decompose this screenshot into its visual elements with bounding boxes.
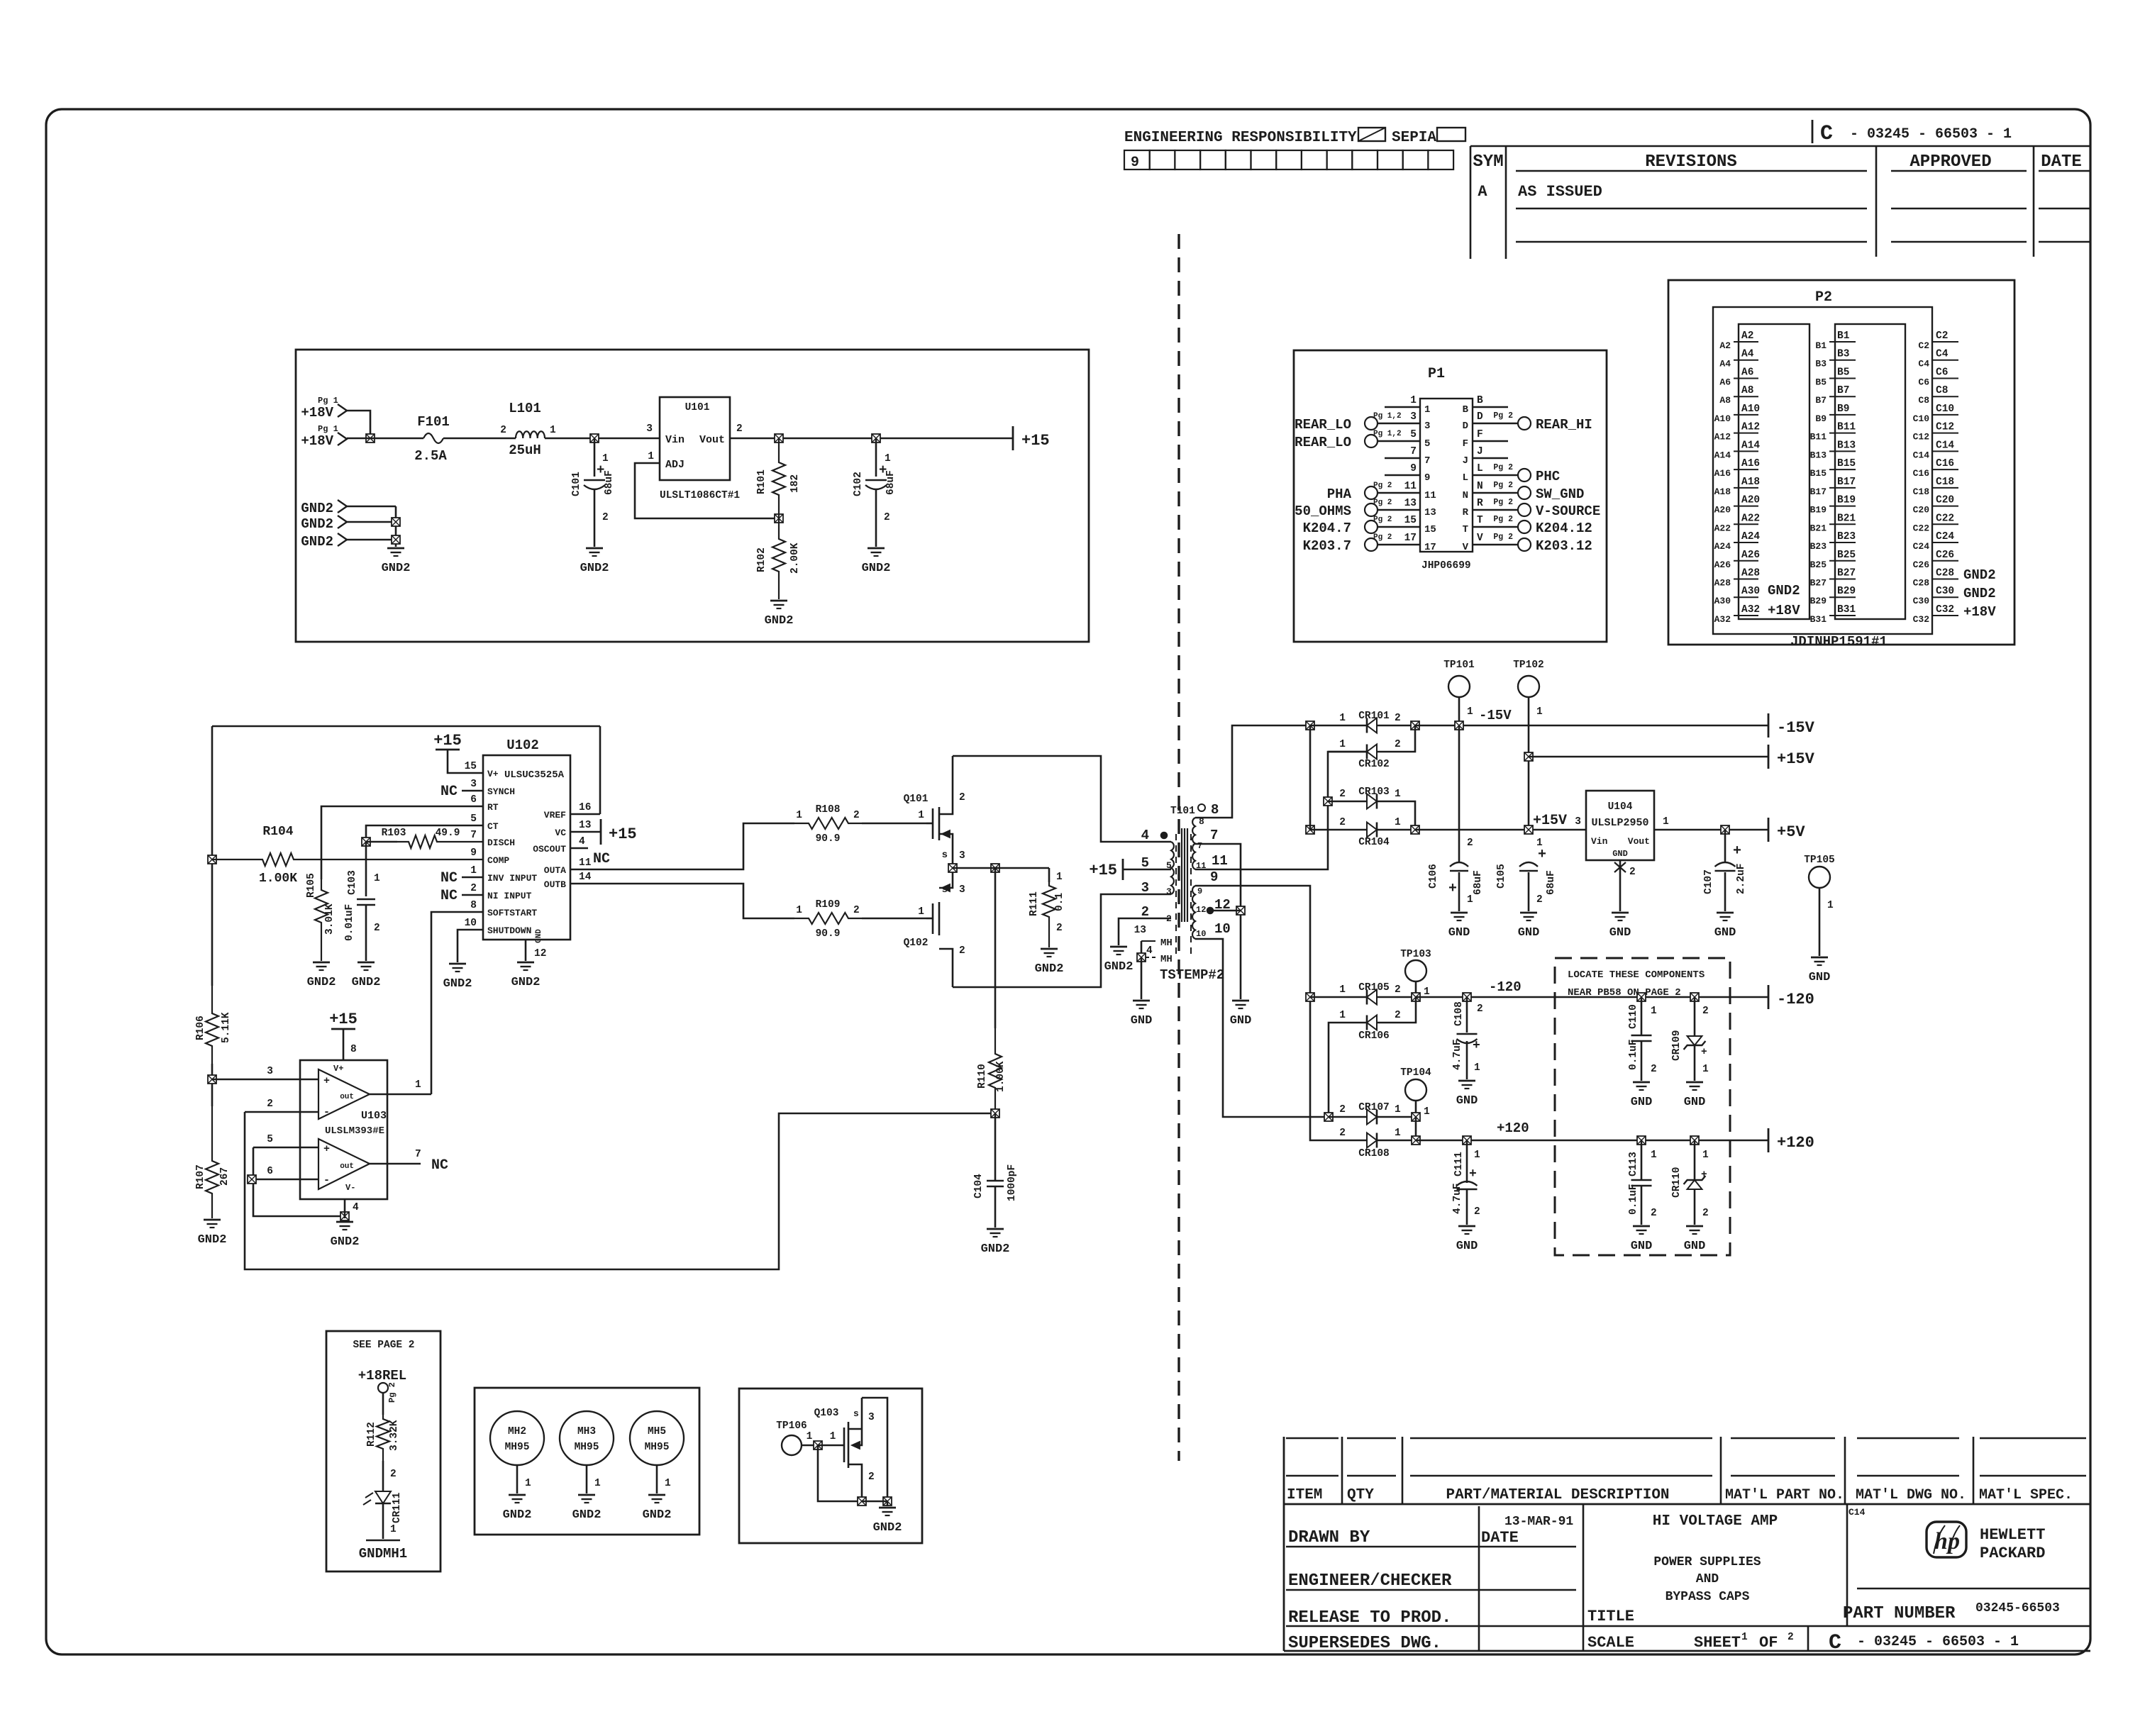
svg-text:A10: A10 xyxy=(1741,404,1760,415)
svg-text:RELEASE TO PROD.: RELEASE TO PROD. xyxy=(1288,1608,1451,1627)
svg-text:A26: A26 xyxy=(1741,550,1760,561)
svg-text:F101: F101 xyxy=(417,414,450,430)
svg-text:9: 9 xyxy=(1210,869,1218,885)
svg-text:B17: B17 xyxy=(1810,486,1827,497)
svg-text:13: 13 xyxy=(1134,925,1146,936)
svg-text:RT: RT xyxy=(487,802,499,813)
svg-text:9: 9 xyxy=(1410,463,1417,474)
svg-text:1: 1 xyxy=(1424,1106,1430,1118)
svg-text:C8: C8 xyxy=(1918,395,1929,406)
svg-text:TP105: TP105 xyxy=(1804,855,1835,866)
svg-text:GND: GND xyxy=(1612,849,1628,859)
svg-text:5: 5 xyxy=(470,813,477,825)
svg-text:1: 1 xyxy=(1395,817,1401,828)
svg-text:Vout: Vout xyxy=(1628,836,1650,847)
svg-text:ULSLM393#E: ULSLM393#E xyxy=(325,1125,384,1137)
svg-text:5.11K: 5.11K xyxy=(221,1012,232,1043)
svg-text:A28: A28 xyxy=(1714,577,1731,588)
svg-text:B15: B15 xyxy=(1810,468,1827,479)
svg-text:2: 2 xyxy=(267,1098,273,1110)
svg-text:DATE: DATE xyxy=(1481,1529,1519,1547)
svg-text:DRAWN BY: DRAWN BY xyxy=(1288,1528,1370,1547)
svg-text:SCALE: SCALE xyxy=(1587,1634,1634,1652)
svg-text:2: 2 xyxy=(1702,1208,1709,1219)
svg-text:A4: A4 xyxy=(1741,349,1754,360)
svg-text:SW_GND: SW_GND xyxy=(1536,486,1584,502)
svg-text:C30: C30 xyxy=(1936,586,1954,597)
svg-text:0.1: 0.1 xyxy=(1054,893,1065,911)
svg-text:V+: V+ xyxy=(487,769,499,779)
svg-text:2: 2 xyxy=(1339,789,1346,800)
svg-text:1: 1 xyxy=(1702,1064,1709,1075)
svg-text:TSTEMP#2: TSTEMP#2 xyxy=(1160,967,1224,983)
svg-text:-120: -120 xyxy=(1777,991,1814,1008)
svg-text:POWER SUPPLIES: POWER SUPPLIES xyxy=(1653,1555,1761,1569)
svg-text:U103: U103 xyxy=(361,1110,387,1122)
svg-text:C107: C107 xyxy=(1703,869,1714,894)
svg-text:Pg 1,2: Pg 1,2 xyxy=(1373,430,1402,438)
svg-text:ULSLT1086CT#1: ULSLT1086CT#1 xyxy=(660,490,740,501)
svg-text:B13: B13 xyxy=(1837,440,1856,451)
svg-text:Pg 1: Pg 1 xyxy=(318,424,338,434)
svg-text:2: 2 xyxy=(390,1469,397,1480)
svg-text:2: 2 xyxy=(1477,1003,1483,1015)
svg-text:GND2: GND2 xyxy=(307,976,336,989)
svg-text:OUTA: OUTA xyxy=(544,865,566,876)
svg-text:A18: A18 xyxy=(1741,477,1760,488)
svg-text:17: 17 xyxy=(1404,533,1417,544)
svg-text:2: 2 xyxy=(1141,904,1149,920)
svg-text:1: 1 xyxy=(1395,789,1401,800)
svg-text:CT: CT xyxy=(487,821,499,832)
svg-text:1: 1 xyxy=(796,905,802,916)
svg-text:MH: MH xyxy=(1160,954,1173,965)
svg-text:2.2uF: 2.2uF xyxy=(1736,863,1747,894)
svg-text:1: 1 xyxy=(807,1431,813,1442)
svg-text:A32: A32 xyxy=(1741,604,1760,616)
svg-text:6: 6 xyxy=(470,794,477,806)
svg-text:A14: A14 xyxy=(1741,440,1760,451)
svg-text:2: 2 xyxy=(374,923,380,934)
svg-text:+: + xyxy=(1448,881,1457,897)
svg-text:C: C xyxy=(1820,122,1833,146)
svg-text:L: L xyxy=(1463,472,1468,484)
svg-text:B31: B31 xyxy=(1810,614,1827,625)
svg-text:C10: C10 xyxy=(1913,413,1930,424)
svg-text:2: 2 xyxy=(853,905,860,916)
svg-text:A22: A22 xyxy=(1741,513,1760,524)
svg-text:C113: C113 xyxy=(1628,1152,1639,1176)
svg-text:+15: +15 xyxy=(1021,432,1050,450)
svg-text:B31: B31 xyxy=(1837,604,1856,616)
svg-text:TP103: TP103 xyxy=(1400,949,1431,960)
svg-text:C6: C6 xyxy=(1936,367,1948,378)
svg-text:A32: A32 xyxy=(1714,614,1731,625)
svg-text:C16: C16 xyxy=(1936,458,1954,469)
svg-text:C6: C6 xyxy=(1918,377,1929,387)
svg-text:2: 2 xyxy=(1467,838,1473,849)
svg-text:CR105: CR105 xyxy=(1358,982,1390,994)
svg-text:B9: B9 xyxy=(1815,413,1827,424)
svg-text:Pg 1,2: Pg 1,2 xyxy=(1373,412,1402,421)
svg-text:NC: NC xyxy=(440,870,458,886)
svg-text:1: 1 xyxy=(1467,894,1473,906)
svg-text:C10: C10 xyxy=(1936,404,1954,415)
svg-text:A18: A18 xyxy=(1714,486,1731,497)
svg-text:C26: C26 xyxy=(1913,560,1930,570)
svg-text:10: 10 xyxy=(1196,929,1206,939)
svg-text:A8: A8 xyxy=(1741,385,1753,396)
svg-text:Pg 2: Pg 2 xyxy=(387,1382,397,1403)
svg-text:B9: B9 xyxy=(1837,404,1849,415)
svg-text:C16: C16 xyxy=(1913,468,1930,479)
svg-text:GND2: GND2 xyxy=(765,614,794,628)
svg-text:NEAR PB58 ON PAGE 2: NEAR PB58 ON PAGE 2 xyxy=(1568,987,1681,998)
svg-text:SEPIA: SEPIA xyxy=(1392,130,1436,146)
svg-text:1.00K: 1.00K xyxy=(995,1061,1007,1092)
svg-text:2: 2 xyxy=(1395,984,1401,996)
svg-text:2: 2 xyxy=(1651,1064,1657,1075)
svg-text:A28: A28 xyxy=(1741,567,1760,579)
svg-text:B5: B5 xyxy=(1815,377,1827,387)
svg-text:K204.12: K204.12 xyxy=(1536,521,1592,536)
svg-text:4: 4 xyxy=(353,1202,359,1213)
svg-text:s: s xyxy=(942,850,948,861)
svg-text:+18V: +18V xyxy=(301,433,333,449)
svg-text:1: 1 xyxy=(1339,984,1346,996)
svg-text:3: 3 xyxy=(646,423,653,435)
svg-text:5: 5 xyxy=(1424,438,1430,450)
svg-text:MH95: MH95 xyxy=(575,1442,599,1453)
svg-text:2: 2 xyxy=(1395,713,1401,724)
svg-text:GND: GND xyxy=(1230,1014,1252,1028)
svg-text:B3: B3 xyxy=(1815,359,1827,369)
svg-text:7: 7 xyxy=(470,830,477,841)
svg-text:CR104: CR104 xyxy=(1358,837,1390,848)
svg-text:2: 2 xyxy=(1166,913,1172,924)
svg-text:+18V: +18V xyxy=(301,405,333,421)
svg-text:B25: B25 xyxy=(1837,550,1856,561)
svg-text:2: 2 xyxy=(470,883,477,894)
svg-text:DISCH: DISCH xyxy=(487,838,515,848)
svg-text:A2: A2 xyxy=(1719,340,1731,351)
svg-text:C8: C8 xyxy=(1936,385,1948,396)
svg-text:+18REL: +18REL xyxy=(358,1368,406,1384)
svg-text:PART NUMBER: PART NUMBER xyxy=(1843,1604,1956,1623)
svg-text:K203.12: K203.12 xyxy=(1536,538,1592,554)
svg-text:2: 2 xyxy=(1651,1208,1657,1219)
svg-text:B19: B19 xyxy=(1810,505,1827,516)
svg-text:NC: NC xyxy=(440,888,458,904)
svg-text:V: V xyxy=(1477,533,1483,544)
svg-text:68uF: 68uF xyxy=(1473,870,1484,895)
svg-text:Pg 2: Pg 2 xyxy=(1493,515,1513,524)
svg-text:OSCOUT: OSCOUT xyxy=(533,844,566,855)
svg-text:MH95: MH95 xyxy=(505,1442,530,1453)
svg-text:2: 2 xyxy=(1056,923,1063,934)
svg-text:A22: A22 xyxy=(1714,523,1731,533)
svg-text:GND2: GND2 xyxy=(862,562,891,575)
svg-text:GND: GND xyxy=(1684,1096,1706,1109)
svg-text:2: 2 xyxy=(1629,867,1636,878)
svg-text:HEWLETT: HEWLETT xyxy=(1980,1526,2045,1544)
svg-text:LOCATE THESE COMPONENTS: LOCATE THESE COMPONENTS xyxy=(1568,969,1705,981)
svg-text:GND: GND xyxy=(1518,926,1540,940)
svg-text:A12: A12 xyxy=(1741,422,1760,433)
svg-text:2: 2 xyxy=(1787,1632,1794,1643)
svg-text:R109: R109 xyxy=(816,899,841,911)
svg-text:CR107: CR107 xyxy=(1358,1102,1390,1113)
svg-text:4.7uF: 4.7uF xyxy=(1452,1039,1463,1070)
svg-text:+: + xyxy=(323,1075,330,1087)
svg-text:+120: +120 xyxy=(1777,1134,1814,1152)
svg-text:2: 2 xyxy=(959,792,965,803)
svg-text:CR101: CR101 xyxy=(1358,711,1390,722)
svg-text:49.9: 49.9 xyxy=(436,828,460,839)
svg-text:8: 8 xyxy=(1211,802,1219,818)
svg-text:R112: R112 xyxy=(366,1422,377,1447)
svg-text:2: 2 xyxy=(884,512,890,523)
svg-text:C106: C106 xyxy=(1428,864,1439,889)
svg-text:B29: B29 xyxy=(1810,596,1827,606)
svg-text:GND2: GND2 xyxy=(981,1242,1010,1256)
svg-text:SUPERSEDES DWG.: SUPERSEDES DWG. xyxy=(1288,1634,1441,1653)
svg-text:- 03245 - 66503 - 1: - 03245 - 66503 - 1 xyxy=(1850,126,2012,143)
svg-text:MAT'L DWG NO.: MAT'L DWG NO. xyxy=(1856,1487,1966,1503)
svg-text:GND2: GND2 xyxy=(443,977,472,991)
svg-text:ENGINEERING RESPONSIBILITY: ENGINEERING RESPONSIBILITY xyxy=(1124,130,1357,146)
svg-text:GND2: GND2 xyxy=(503,1508,532,1522)
svg-text:Pg 2: Pg 2 xyxy=(1493,411,1513,421)
svg-text:C101: C101 xyxy=(571,472,582,496)
svg-text:-15V: -15V xyxy=(1479,708,1512,723)
svg-text:R106: R106 xyxy=(195,1016,206,1040)
svg-text:AS ISSUED: AS ISSUED xyxy=(1518,183,1602,201)
svg-text:11: 11 xyxy=(1424,490,1436,501)
svg-text:GND: GND xyxy=(1456,1240,1478,1253)
svg-text:B3: B3 xyxy=(1837,349,1849,360)
svg-text:QTY: QTY xyxy=(1347,1487,1374,1503)
svg-text:Pg 2: Pg 2 xyxy=(1493,463,1513,472)
svg-text:3: 3 xyxy=(1166,886,1172,897)
svg-text:3: 3 xyxy=(959,884,965,896)
svg-text:9: 9 xyxy=(1424,472,1430,484)
svg-text:A12: A12 xyxy=(1714,432,1731,443)
svg-text:A16: A16 xyxy=(1741,458,1760,469)
svg-text:14: 14 xyxy=(579,872,592,883)
svg-text:SHUTDOWN: SHUTDOWN xyxy=(487,925,531,936)
svg-text:3: 3 xyxy=(1575,816,1581,828)
svg-text:A6: A6 xyxy=(1741,367,1753,378)
svg-text:1: 1 xyxy=(1395,1104,1401,1115)
svg-text:A20: A20 xyxy=(1714,505,1731,516)
svg-text:U102: U102 xyxy=(506,738,539,753)
svg-text:MH: MH xyxy=(1160,937,1173,949)
svg-text:TITLE: TITLE xyxy=(1587,1608,1634,1625)
svg-text:C20: C20 xyxy=(1936,495,1954,506)
svg-text:11: 11 xyxy=(1404,481,1417,492)
svg-text:R: R xyxy=(1463,507,1469,518)
svg-text:6: 6 xyxy=(267,1166,273,1177)
svg-text:B11: B11 xyxy=(1837,422,1856,433)
svg-text:7: 7 xyxy=(1210,828,1218,843)
svg-text:GND: GND xyxy=(1631,1240,1653,1253)
svg-text:B15: B15 xyxy=(1837,458,1856,469)
svg-text:s: s xyxy=(942,884,948,896)
svg-text:1: 1 xyxy=(1474,1062,1480,1074)
svg-text:NC: NC xyxy=(431,1157,448,1174)
svg-text:10: 10 xyxy=(1214,921,1231,937)
svg-text:10: 10 xyxy=(465,918,477,929)
svg-text:11: 11 xyxy=(579,857,592,869)
svg-text:2: 2 xyxy=(1339,817,1346,828)
svg-text:B: B xyxy=(1463,404,1469,416)
svg-text:0.1uF: 0.1uF xyxy=(1628,1184,1639,1215)
svg-text:C22: C22 xyxy=(1913,523,1930,533)
svg-text:APPROVED: APPROVED xyxy=(1910,152,1991,172)
svg-text:J: J xyxy=(1463,455,1468,467)
svg-text:+18V: +18V xyxy=(1768,603,1800,618)
svg-text:+15: +15 xyxy=(609,825,637,843)
svg-text:A16: A16 xyxy=(1714,468,1731,479)
svg-text:C14: C14 xyxy=(1936,440,1954,451)
svg-text:3: 3 xyxy=(1424,421,1430,432)
svg-text:B5: B5 xyxy=(1837,367,1849,378)
svg-text:R102: R102 xyxy=(756,547,767,572)
svg-text:12: 12 xyxy=(1196,905,1206,915)
svg-text:9: 9 xyxy=(470,847,477,859)
svg-text:1: 1 xyxy=(1467,706,1473,718)
svg-text:90.9: 90.9 xyxy=(816,833,841,845)
svg-text:GND2: GND2 xyxy=(580,562,609,575)
svg-text:2.00K: 2.00K xyxy=(789,542,801,574)
svg-text:B17: B17 xyxy=(1837,477,1856,488)
svg-text:+15V: +15V xyxy=(1777,750,1815,768)
svg-text:GND2: GND2 xyxy=(198,1233,227,1247)
svg-text:15: 15 xyxy=(1424,524,1436,535)
svg-text:1: 1 xyxy=(1395,1128,1401,1139)
svg-text:13: 13 xyxy=(579,820,591,831)
svg-text:MH95: MH95 xyxy=(645,1442,670,1453)
svg-text:R101: R101 xyxy=(756,469,767,494)
svg-text:11: 11 xyxy=(1212,853,1228,869)
svg-text:B: B xyxy=(1477,395,1483,406)
svg-text:GND: GND xyxy=(1448,926,1470,940)
svg-text:K204.7: K204.7 xyxy=(1303,521,1351,536)
svg-text:2: 2 xyxy=(853,810,860,821)
svg-text:1: 1 xyxy=(470,865,477,877)
svg-text:C: C xyxy=(1829,1631,1841,1655)
svg-text:GND: GND xyxy=(1714,926,1736,940)
svg-text:15: 15 xyxy=(465,761,477,772)
svg-text:B27: B27 xyxy=(1837,567,1856,579)
svg-text:B25: B25 xyxy=(1810,560,1827,570)
svg-text:A30: A30 xyxy=(1741,586,1760,597)
svg-text:2: 2 xyxy=(1474,1206,1480,1218)
svg-text:REAR_HI: REAR_HI xyxy=(1536,417,1592,433)
svg-text:-15V: -15V xyxy=(1777,719,1815,737)
svg-text:+18V: +18V xyxy=(1963,604,1996,620)
svg-text:F: F xyxy=(1463,438,1468,450)
svg-text:GND2: GND2 xyxy=(572,1508,602,1522)
svg-text:ENGINEER/CHECKER: ENGINEER/CHECKER xyxy=(1288,1571,1452,1591)
svg-text:1: 1 xyxy=(1741,1632,1748,1643)
svg-text:ADJ: ADJ xyxy=(665,459,684,471)
svg-text:+: + xyxy=(1701,1169,1707,1181)
svg-text:C102: C102 xyxy=(853,472,864,496)
svg-text:JHP06699: JHP06699 xyxy=(1421,560,1471,572)
svg-text:CR110: CR110 xyxy=(1671,1167,1683,1198)
svg-text:CR111: CR111 xyxy=(392,1492,403,1523)
svg-text:T101: T101 xyxy=(1170,806,1195,817)
svg-text:C28: C28 xyxy=(1936,567,1954,579)
svg-text:Pg 1: Pg 1 xyxy=(318,396,338,406)
svg-text:Q103: Q103 xyxy=(814,1408,839,1419)
svg-text:B23: B23 xyxy=(1837,531,1856,542)
svg-text:GND: GND xyxy=(1456,1094,1478,1108)
svg-text:GND2: GND2 xyxy=(301,534,333,550)
svg-text:REAR_LO: REAR_LO xyxy=(1295,417,1351,433)
svg-text:B13: B13 xyxy=(1810,450,1827,460)
svg-text:out: out xyxy=(340,1093,354,1101)
svg-text:TP102: TP102 xyxy=(1513,660,1544,671)
svg-text:DATE: DATE xyxy=(2041,152,2082,172)
svg-text:B21: B21 xyxy=(1810,523,1827,533)
svg-text:+: + xyxy=(1701,1047,1707,1058)
svg-text:MH5: MH5 xyxy=(648,1426,666,1437)
svg-text:1: 1 xyxy=(1474,1150,1480,1161)
svg-text:2: 2 xyxy=(1395,739,1401,750)
svg-text:A24: A24 xyxy=(1741,531,1760,542)
svg-text:SYM: SYM xyxy=(1473,152,1503,172)
svg-text:1: 1 xyxy=(830,1431,836,1442)
svg-text:GND2: GND2 xyxy=(1963,586,1996,601)
svg-text:B1: B1 xyxy=(1815,340,1827,351)
svg-text:PACKARD: PACKARD xyxy=(1980,1545,2045,1562)
svg-text:3: 3 xyxy=(267,1066,273,1077)
svg-text:R111: R111 xyxy=(1029,891,1040,916)
svg-text:4: 4 xyxy=(1146,945,1153,957)
svg-text:13: 13 xyxy=(1424,507,1436,518)
svg-text:1: 1 xyxy=(1536,706,1543,718)
svg-text:+5V: +5V xyxy=(1777,823,1805,841)
svg-text:A6: A6 xyxy=(1719,377,1731,387)
svg-text:267: 267 xyxy=(219,1167,231,1186)
svg-text:+: + xyxy=(1473,1039,1480,1053)
svg-text:OUTB: OUTB xyxy=(544,879,566,890)
svg-text:B21: B21 xyxy=(1837,513,1856,524)
svg-text:ULSLP2950: ULSLP2950 xyxy=(1591,817,1648,829)
svg-text:50_OHMS: 50_OHMS xyxy=(1295,503,1351,519)
svg-text:7: 7 xyxy=(1197,841,1202,851)
svg-text:1: 1 xyxy=(390,1524,397,1535)
svg-text:2: 2 xyxy=(1395,1010,1401,1021)
svg-text:V-SOURCE: V-SOURCE xyxy=(1536,503,1600,519)
svg-text:TP104: TP104 xyxy=(1400,1067,1431,1079)
svg-text:1: 1 xyxy=(918,810,924,821)
svg-text:25uH: 25uH xyxy=(509,443,541,458)
svg-text:SOFTSTART: SOFTSTART xyxy=(487,908,537,918)
svg-text:V+: V+ xyxy=(333,1064,343,1074)
svg-text:GND2: GND2 xyxy=(301,516,333,532)
svg-text:C14: C14 xyxy=(1849,1507,1866,1518)
svg-text:JDINHP1591#1: JDINHP1591#1 xyxy=(1790,634,1888,650)
svg-text:1: 1 xyxy=(1410,395,1417,406)
svg-text:3.32K: 3.32K xyxy=(389,1420,400,1451)
svg-text:2: 2 xyxy=(500,425,506,436)
svg-text:D: D xyxy=(1477,411,1483,423)
svg-text:R107: R107 xyxy=(195,1164,206,1189)
